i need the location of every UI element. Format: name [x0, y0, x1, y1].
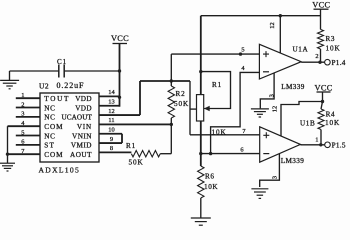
potentiometer R1 body	[197, 95, 204, 121]
svg-text:R6: R6	[205, 173, 215, 181]
node R1/R2/VIN junction	[170, 123, 173, 126]
svg-text:R3: R3	[326, 35, 336, 43]
node pin7/COM junction	[6, 152, 9, 155]
svg-text:1: 1	[21, 92, 24, 99]
resistor R2	[170, 54, 172, 86]
wiper arrow	[204, 108, 210, 110]
svg-text:P1.5: P1.5	[332, 142, 346, 150]
svg-text:TOUT: TOUT	[44, 95, 70, 103]
wire U1A pin4 threshold link	[211, 72, 260, 153]
wire VCC1 vertical to U2 VDD pins	[119, 44, 121, 107]
svg-text:COM: COM	[44, 151, 63, 159]
wire 7 to U1B plus input	[190, 134, 260, 136]
node R3/output junction	[318, 61, 321, 64]
node pot top / wiper link junction	[199, 70, 202, 73]
wire UCAOUT pin12 up	[139, 81, 141, 115]
U2 pin 8 stub	[99, 151, 131, 153]
svg-text:10K: 10K	[212, 129, 227, 137]
wire VCC to R4/U1B power	[322, 92, 324, 102]
svg-text:0.22uF: 0.22uF	[57, 81, 85, 90]
U2 pin 7 stub	[8, 153, 41, 155]
node U1A power junction	[279, 14, 282, 17]
wire pot top lead	[200, 16, 202, 95]
svg-text:12: 12	[272, 106, 279, 112]
svg-text:6: 6	[240, 146, 243, 153]
node pin14/VCC junction	[118, 96, 121, 99]
svg-text:R2: R2	[176, 90, 186, 98]
svg-text:10K: 10K	[204, 183, 218, 191]
svg-text:10K: 10K	[326, 45, 341, 53]
U2 pin 12 stub	[99, 114, 140, 116]
minus input marker U1B	[263, 153, 269, 155]
wire COM pins 4,7 to ground	[7, 126, 9, 163]
svg-text:C1: C1	[57, 58, 67, 66]
svg-text:AOUT: AOUT	[70, 151, 92, 159]
U2 pin 6 stub	[16, 144, 40, 146]
wire C1 left to ground	[10, 70, 59, 72]
wire top rail (pot top to VCC)	[201, 15, 321, 17]
svg-text:P1.4: P1.4	[332, 59, 346, 67]
terminal P1.4	[325, 59, 331, 65]
wire signal to U1A pin 5	[171, 53, 259, 55]
U2 pin 3 stub	[16, 116, 40, 118]
svg-text:VCC: VCC	[312, 1, 330, 10]
U2 pin 4 stub	[8, 125, 41, 127]
resistor R1 (AOUT series)	[131, 151, 160, 157]
wire U1A output	[301, 61, 324, 63]
svg-text:R1: R1	[126, 142, 136, 150]
svg-text:9: 9	[110, 136, 113, 143]
plus input marker U1B	[263, 132, 269, 138]
plus input marker U1A	[263, 51, 269, 57]
svg-text:UCAOUT: UCAOUT	[61, 114, 92, 122]
wire 6 to U1B minus input	[201, 153, 260, 155]
U2 pin 1 stub	[16, 97, 40, 99]
svg-text:U1A: U1A	[293, 46, 309, 54]
svg-text:50K: 50K	[174, 100, 189, 108]
U2 pin 14 stub	[99, 95, 120, 97]
svg-text:5: 5	[21, 129, 24, 136]
svg-text:10: 10	[108, 126, 114, 133]
node R4/output junction	[319, 143, 322, 146]
svg-text:12: 12	[269, 22, 276, 28]
wire U1B power pin	[281, 102, 323, 137]
wire signal bypass down to U1B pin 7	[189, 81, 191, 135]
node wire6/jog junction	[209, 152, 212, 155]
svg-text:U2: U2	[39, 82, 49, 91]
wire VCC to R3	[320, 9, 322, 29]
svg-text:ADXL105: ADXL105	[39, 166, 81, 175]
svg-text:3: 3	[21, 111, 24, 118]
ground (top left)	[9, 71, 11, 80]
svg-text:VMID: VMID	[71, 142, 92, 150]
svg-text:10K: 10K	[325, 119, 340, 127]
wiper tap wire	[190, 108, 197, 110]
svg-text:VCC: VCC	[111, 34, 129, 43]
svg-text:12: 12	[108, 108, 114, 115]
node wire6 junction on pot lead	[199, 152, 202, 155]
wire C1 right to VCC line	[64, 70, 119, 72]
svg-text:1: 1	[315, 136, 318, 143]
op-amp U1B (LM339 comparator)	[260, 127, 301, 162]
wire VIN pin 11 to R1/R2 node	[99, 123, 171, 125]
svg-text:VCC: VCC	[315, 84, 333, 93]
wire wiper link to pot top	[201, 72, 231, 109]
wire UCAOUT to R2 top node	[140, 80, 190, 82]
resistor R6	[198, 166, 204, 198]
svg-text:R4: R4	[326, 110, 336, 118]
svg-text:ST: ST	[44, 142, 55, 150]
svg-text:NC: NC	[44, 114, 55, 122]
resistor R4	[321, 102, 323, 110]
U2 pin 2 stub	[16, 107, 40, 109]
svg-text:LM339: LM339	[281, 83, 305, 91]
svg-text:NC: NC	[44, 104, 55, 112]
svg-text:COM: COM	[44, 123, 63, 131]
svg-text:50K: 50K	[129, 159, 144, 167]
capacitor C1	[58, 65, 60, 78]
ground (below U2)	[0, 163, 15, 171]
svg-text:2: 2	[21, 101, 24, 108]
U2 pin 9 stub	[99, 142, 122, 144]
svg-text:5: 5	[241, 47, 244, 54]
ground (below R6)	[191, 218, 211, 225]
node on pin5 wire	[239, 52, 242, 55]
resistor R3	[318, 29, 324, 49]
svg-text:11: 11	[108, 117, 114, 124]
U2 pin 13 stub	[99, 105, 120, 107]
wire U1A power pin from top rail	[279, 16, 281, 53]
node VCC/R4/U1B junction	[321, 100, 324, 103]
svg-text:13: 13	[108, 98, 114, 105]
terminal P1.5	[325, 142, 331, 148]
U2 pin 5 stub	[16, 135, 40, 137]
wire pot bottom lead down to R6	[200, 121, 202, 166]
wire U1A ground pin	[260, 73, 274, 109]
node R2 top / signal junction	[170, 79, 173, 82]
wire pin10-pin9 tie (VNIN to VMID)	[121, 134, 123, 143]
svg-text:LM339: LM339	[281, 157, 305, 165]
svg-text:VDD: VDD	[75, 95, 92, 103]
IC U2 ADXL105 accelerometer body	[40, 93, 99, 162]
U2 pin 10 stub	[99, 133, 122, 135]
svg-text:3: 3	[268, 94, 275, 97]
wire U1B output	[300, 144, 324, 146]
svg-text:2: 2	[315, 53, 318, 60]
ground (U1B)	[251, 189, 268, 199]
op-amp U1A (LM339 comparator)	[259, 44, 301, 79]
svg-text:3: 3	[272, 176, 279, 179]
minus input marker U1A	[263, 71, 269, 73]
wire U1B ground pin	[260, 154, 280, 187]
svg-text:6: 6	[21, 139, 24, 146]
svg-text:NC: NC	[44, 132, 55, 140]
svg-text:14: 14	[108, 89, 115, 96]
svg-text:VIN: VIN	[77, 123, 92, 131]
node C1/VCC junction	[118, 69, 121, 72]
svg-text:8: 8	[110, 145, 113, 152]
svg-text:VNIN: VNIN	[72, 132, 92, 140]
svg-text:U1B: U1B	[300, 119, 315, 127]
U2 pin 11 stub	[99, 123, 171, 125]
ground (U1A)	[251, 109, 269, 117]
svg-text:R1: R1	[212, 81, 222, 89]
svg-text:VDD: VDD	[75, 104, 92, 112]
